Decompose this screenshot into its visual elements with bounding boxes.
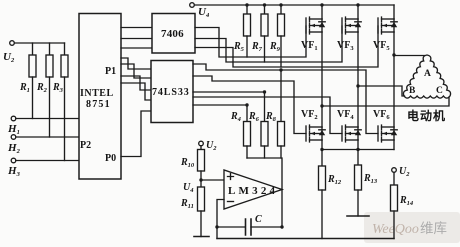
wire: R9 top stub xyxy=(280,5,282,14)
junction ls33 out1/R8 xyxy=(279,68,282,71)
svg-text:WeeQoo: WeeQoo xyxy=(372,222,419,237)
watermark box (decorative) xyxy=(364,212,460,243)
wire: phase C to motor xyxy=(322,97,449,106)
svg-text:C: C xyxy=(255,214,262,225)
svg-text:电动机: 电动机 xyxy=(407,108,446,123)
capacitor C xyxy=(246,219,252,235)
svg-text:VF6: VF6 xyxy=(373,109,390,121)
wire: phase A to motor xyxy=(394,55,425,57)
svg-text:R8: R8 xyxy=(265,111,277,123)
wire: R4 top stub xyxy=(246,105,248,122)
junction phase A tap xyxy=(392,53,395,56)
svg-text:H2: H2 xyxy=(7,142,21,155)
ground (below R11) xyxy=(194,236,209,238)
wire: 74LS33 out 5 to R4 xyxy=(193,104,247,106)
transistor VF4 (VF4) xyxy=(342,125,361,142)
wire: R5 bottom to gate bus 1 xyxy=(246,36,248,57)
motor M (three-phase winding) xyxy=(403,55,450,98)
wire: 7406 out 1 to VF1 gate xyxy=(195,26,306,57)
wire: R8 bottom xyxy=(280,146,282,158)
op-amp N1 LM324 xyxy=(224,170,282,209)
wire: phase column VF3-VF4 xyxy=(357,32,359,127)
junction rail/VF3 drain xyxy=(356,3,359,6)
wire: P1 to 74LS33 input 3 xyxy=(121,76,151,90)
node U2 terminal (right) xyxy=(392,168,397,173)
svg-text:R2: R2 xyxy=(36,82,48,94)
wire: U2 to R10 xyxy=(200,146,202,150)
wire: source bus xyxy=(322,149,394,151)
junction rail/VF1 drain xyxy=(320,3,323,6)
wire: R3 bottom to H3 line xyxy=(64,77,66,161)
junction phase B tap xyxy=(356,84,359,87)
svg-text:P1: P1 xyxy=(105,66,116,77)
wire: U4 drain supply rail xyxy=(194,4,394,6)
microcontroller U1 INTEL 8751 xyxy=(79,14,121,180)
wire: H2 to 8751 P2 xyxy=(16,136,79,138)
wire: 7406 out 3 to VF5 gate xyxy=(195,26,378,67)
wire: R6 bottom xyxy=(264,146,266,158)
svg-text:A: A xyxy=(424,69,431,79)
svg-text:R14: R14 xyxy=(399,195,414,207)
wire: divider node to op-amp + input xyxy=(201,179,224,181)
svg-text:74LS33: 74LS33 xyxy=(152,87,190,98)
wire: H1 to 8751 xyxy=(16,118,79,120)
svg-text:R5: R5 xyxy=(233,41,245,53)
wire: R3 top xyxy=(64,43,66,55)
resistor R8 xyxy=(278,122,285,147)
junction rail/R7 xyxy=(263,3,266,6)
svg-text:R4: R4 xyxy=(230,111,242,123)
svg-text:R13: R13 xyxy=(363,173,378,185)
junction source bus/R12 xyxy=(320,148,323,151)
resistor R6 xyxy=(261,122,268,147)
wire: R4 bottom xyxy=(246,146,248,158)
resistor R9 xyxy=(278,14,285,36)
svg-text:VF2: VF2 xyxy=(301,109,318,121)
svg-text:维库: 维库 xyxy=(420,221,447,236)
transistor VF5 (VF5) xyxy=(378,17,397,34)
wire: R5 top stub xyxy=(246,5,248,14)
svg-text:VF4: VF4 xyxy=(337,109,354,121)
svg-text:VF3: VF3 xyxy=(337,40,354,52)
svg-text:R6: R6 xyxy=(248,111,260,123)
resistor R2 xyxy=(46,55,53,77)
wire: R2 bottom to H2 line xyxy=(49,77,51,137)
gate U3 74LS33 xyxy=(151,61,193,123)
wire: R2 top xyxy=(49,43,51,55)
svg-text:INTEL: INTEL xyxy=(80,88,114,99)
wire: op-amp - input to feedback xyxy=(217,200,224,239)
junction ls33 out5/R4 xyxy=(245,103,248,106)
node U4 supply terminal (top) xyxy=(190,3,195,8)
wire: R12 bottom to rail xyxy=(321,190,323,239)
wire: tie of R4/R6/R8 bottoms to op-amp output xyxy=(247,158,282,190)
svg-text:U2: U2 xyxy=(399,166,410,178)
svg-text:7406: 7406 xyxy=(161,28,184,40)
transistor VF6 (VF6) xyxy=(378,125,397,142)
wire: 8751 P1 to 7406 input 2 xyxy=(121,38,152,40)
junction feedback node xyxy=(215,225,218,228)
wire: R6 top stub xyxy=(264,92,266,122)
svg-text:R12: R12 xyxy=(327,174,342,186)
resistor R12 xyxy=(319,166,326,190)
node U2 terminal (middle) xyxy=(199,141,204,146)
wire: capacitor to op-amp output xyxy=(251,190,282,228)
wire: VF4 source down xyxy=(357,140,359,165)
svg-text:R9: R9 xyxy=(269,41,281,53)
wire: R13 bottom to ground xyxy=(357,190,359,216)
wire: VF1 drain to rail xyxy=(321,5,323,19)
svg-text:R1: R1 xyxy=(19,82,30,94)
resistor R11 xyxy=(198,187,205,211)
svg-text:VF1: VF1 xyxy=(301,40,318,52)
transistor VF1 (VF1) xyxy=(306,17,325,34)
wire: R8 top stub xyxy=(280,70,282,122)
resistor R7 xyxy=(261,14,268,36)
wire: R10 bottom to node U4 xyxy=(200,171,202,187)
wire: H3 to 8751 xyxy=(16,160,79,162)
svg-text:U2: U2 xyxy=(206,140,217,152)
svg-text:LM324: LM324 xyxy=(228,185,278,197)
wire: R7 top stub xyxy=(264,5,266,14)
wire: R9 bottom to gate bus 3 xyxy=(280,36,282,67)
junction divider node U4 xyxy=(199,178,202,181)
junction rail/R9 xyxy=(279,3,282,6)
svg-text:U4: U4 xyxy=(198,6,210,19)
wire: 74LS33 out 4 to VF4 gate xyxy=(193,97,342,134)
svg-text:VF5: VF5 xyxy=(373,40,390,52)
junction rail/R5 xyxy=(245,3,248,6)
inverter U2 7406 xyxy=(152,14,195,54)
node H1 hall-sensor terminal xyxy=(11,116,16,121)
wire: U2 rail to pull-up resistors xyxy=(14,42,64,44)
junction source bus/R13 xyxy=(356,148,359,151)
wire: 8751 P1 to 7406 input 3 xyxy=(121,47,152,49)
wire: feedback to capacitor C xyxy=(217,226,245,228)
svg-text:C: C xyxy=(436,86,443,96)
wire: R14 bottom to rail xyxy=(393,211,395,239)
wire: P1 to 74LS33 input 1 xyxy=(121,58,151,69)
junction ls33 out2/R6 xyxy=(263,90,266,93)
wire: R7 bottom to gate bus 2 xyxy=(264,36,266,62)
wire: VF3 drain to rail xyxy=(357,5,359,19)
node U2 supply terminal (left) xyxy=(10,41,15,46)
transistor VF2 (VF2) xyxy=(306,125,325,142)
wire: R1 bottom to H1 line xyxy=(32,77,34,119)
node H2 hall-sensor terminal xyxy=(11,135,16,140)
resistor R10 xyxy=(198,150,205,172)
resistor R5 xyxy=(244,14,251,36)
wire: VF6 source down xyxy=(393,140,395,150)
wire: VF5 drain to rail xyxy=(393,5,395,19)
wire: bottom rail xyxy=(217,238,394,240)
svg-text:U2: U2 xyxy=(3,51,15,64)
svg-text:8751: 8751 xyxy=(86,99,111,110)
wire: U2 to R14 xyxy=(393,172,395,185)
wire: R1 top xyxy=(32,43,34,55)
wire: 74LS33 out 3 to R6 xyxy=(193,91,265,93)
svg-text:R11: R11 xyxy=(180,198,194,210)
wire: P0 to 74LS33 input 5 xyxy=(121,111,151,157)
resistor R4 xyxy=(244,122,251,147)
wire: phase column VF5-VF6 xyxy=(393,32,395,127)
transistor VF3 (VF3) xyxy=(342,17,361,34)
wire: phase B to motor xyxy=(358,86,405,96)
node H3 hall-sensor terminal xyxy=(11,158,16,163)
svg-text:R3: R3 xyxy=(52,82,64,94)
svg-text:B: B xyxy=(409,86,416,96)
resistor R3 xyxy=(61,55,68,77)
wire: P1 to 74LS33 input 4 xyxy=(121,83,151,100)
resistor R1 xyxy=(29,55,36,77)
svg-text:R7: R7 xyxy=(251,41,263,53)
resistor R14 xyxy=(391,185,398,211)
wire: 8751 P1 to 7406 input 1 xyxy=(121,27,152,29)
svg-text:U4: U4 xyxy=(183,182,194,194)
wire: 74LS33 out 2 to VF2 gate xyxy=(193,76,306,134)
svg-text:R10: R10 xyxy=(180,157,195,169)
svg-text:P0: P0 xyxy=(105,153,116,164)
ground (below R13) xyxy=(347,215,369,217)
wire: 7406 out 2 to VF3 gate xyxy=(195,26,342,62)
junction phase C tap xyxy=(320,104,323,107)
svg-text:P2: P2 xyxy=(80,140,91,151)
junction output/feedback xyxy=(280,225,283,228)
wire: P1 to 74LS33 input 2 xyxy=(121,64,151,78)
wire: R11 bottom to ground xyxy=(200,211,202,237)
resistor R13 xyxy=(355,165,362,190)
wire: 74LS33 out 1 to VF6 gate xyxy=(193,64,378,134)
wire: VF2 source to R12 xyxy=(321,140,323,166)
wire: phase column VF1-VF2 xyxy=(321,32,323,127)
svg-text:H3: H3 xyxy=(7,165,21,178)
